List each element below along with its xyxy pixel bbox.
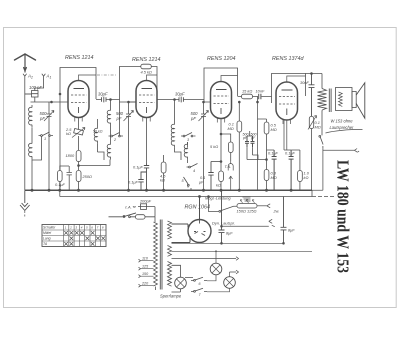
wire cap link (211, 161, 221, 163)
svg-text:0.1μF: 0.1μF (285, 151, 296, 156)
arrow tap b (236, 270, 239, 274)
wire stage3 links (175, 142, 192, 190)
junction (238, 101, 240, 103)
coil L2a grid coil (107, 108, 110, 126)
svg-text:250Ω: 250Ω (82, 174, 92, 179)
speaker driver (352, 92, 356, 108)
terminal (A) hook (133, 206, 136, 209)
tube V1 cathode (78, 107, 80, 113)
wire cathode chain (78, 162, 80, 171)
svg-text:Lang: Lang (43, 237, 51, 241)
resistor mains series (136, 215, 146, 219)
tube V1 anode (74, 88, 85, 90)
tube V3 anode (216, 89, 227, 91)
INTERSTAGE-2-3 (157, 97, 211, 190)
capacitor 30nF (309, 74, 315, 117)
wire to resistor 1800 (78, 136, 80, 150)
capacitor 0.1uF stage1 (67, 166, 72, 190)
junction dots on bus (31, 189, 33, 191)
wire Rk (60, 166, 69, 190)
transformer secondary heater (168, 262, 172, 287)
svg-text:4: 4 (193, 169, 195, 173)
X marks row TA (64, 242, 94, 246)
BUS-LINES (20, 189, 312, 217)
wire stage4 frame (272, 74, 306, 104)
speaker field resistor 150/125 (237, 204, 257, 208)
svg-text:Lautsprecher: Lautsprecher (330, 125, 355, 130)
wire anode feeds (79, 75, 306, 82)
pilot lamp 1 (175, 277, 187, 289)
MID-CLUSTER (208, 101, 302, 190)
resistor 15k coupling (242, 94, 253, 99)
switch S8 (319, 135, 321, 137)
WIRES-TOP (59, 67, 305, 137)
svg-text:MΩ: MΩ (271, 175, 277, 180)
resistor 0.1M (237, 121, 242, 132)
tube V4 anode (282, 89, 293, 91)
wire 500pF links (247, 131, 267, 160)
wire lamp2 links (207, 251, 236, 291)
svg-text:125: 125 (142, 265, 149, 269)
svg-text:MΩ: MΩ (271, 127, 277, 132)
table row lines (42, 230, 106, 241)
rectifier tube circle (188, 220, 211, 243)
tube V2 anode (142, 88, 153, 90)
wire A1 down (35, 79, 44, 88)
svg-text:30μF: 30μF (175, 92, 185, 97)
tube V2 cathode (146, 107, 148, 113)
wire grid link 0.5M (258, 118, 267, 120)
tube V4 envelope (276, 82, 298, 120)
wire anode top right (306, 73, 323, 75)
switch S2 (109, 133, 124, 137)
output transformer secondary (339, 92, 343, 106)
resistor R 250 (76, 171, 81, 182)
capacitor 0.1uF b (138, 172, 146, 190)
SWITCH-TABLE (42, 225, 106, 247)
svg-text:kΩ: kΩ (304, 175, 309, 180)
svg-text:6: 6 (199, 282, 201, 286)
capacitor 30uF coupling1 (102, 97, 107, 103)
resistor 4.5k stage2 (161, 162, 166, 173)
tube V1 grid (71, 95, 87, 103)
tube V1 envelope (68, 81, 89, 118)
svg-text:1: 1 (44, 137, 46, 141)
wire resistor to hook (257, 205, 267, 207)
output choke (318, 74, 327, 134)
wire to bus (78, 182, 80, 191)
svg-text:150Ω 125Ω: 150Ω 125Ω (237, 209, 257, 214)
wire lamp column links (172, 259, 217, 278)
RIGHT-LOWER-SECTION (208, 190, 334, 244)
junction grid1 (59, 93, 61, 95)
capacitor 30uF coupling2 (179, 97, 183, 103)
variable resistor 2.5k (74, 128, 84, 135)
svg-text:pF: pF (242, 136, 248, 140)
wire C1 down (48, 102, 50, 190)
wire grid stage2 (129, 101, 137, 103)
wire cap to transformer (154, 207, 156, 217)
terminal hook out1 (267, 204, 270, 208)
capacitor 500pF pair (245, 136, 249, 147)
wire antenna mast (24, 54, 27, 72)
rectifier anode marks (194, 220, 206, 236)
capacitor 0.1uF TA (208, 162, 213, 191)
pilot lamp 2 (210, 263, 222, 275)
svg-text:RENS 1214: RENS 1214 (132, 57, 160, 63)
wire node to grid line (25, 93, 32, 95)
terminal A1 (42, 74, 45, 79)
wire C2 col (120, 102, 137, 190)
svg-text:μF: μF (198, 180, 204, 185)
tube V2 grid (139, 95, 155, 103)
svg-text:150: 150 (142, 272, 149, 276)
wire dash boundary (312, 196, 334, 198)
svg-text:10nF: 10nF (256, 89, 265, 94)
svg-text:100 pF: 100 pF (29, 85, 42, 90)
wire second bus drop to switch (209, 197, 219, 212)
OUTPUT-SPEAKER-SECTION (306, 73, 365, 191)
terminal A2 (23, 74, 26, 79)
X marks row Mittel (64, 231, 94, 235)
wire cathode tap row (79, 160, 111, 166)
wire bus drop right (311, 190, 313, 196)
svg-text:pF: pF (250, 136, 256, 140)
svg-text:1800: 1800 (66, 153, 75, 158)
svg-text:MΩ: MΩ (228, 126, 234, 131)
variable capacitor C3 500pF (201, 110, 206, 123)
svg-text:RENS 1374d: RENS 1374d (272, 56, 304, 62)
wire anode row 1-2 (96, 99, 120, 101)
svg-text:Mittel: Mittel (43, 231, 51, 235)
variable resistor 0.1M tone (309, 117, 313, 129)
switch S-anode (219, 210, 221, 212)
svg-text:15 kΩ: 15 kΩ (242, 89, 252, 94)
LAMPS (172, 243, 313, 292)
capacitor 8uF left (219, 190, 225, 243)
wire stage3 frame (204, 68, 238, 102)
junction (311, 73, 313, 75)
svg-text:kΩ: kΩ (216, 183, 221, 188)
svg-text:8μF: 8μF (226, 231, 233, 236)
svg-text:kΩ: kΩ (66, 131, 71, 136)
wire lamp1 links (172, 265, 181, 292)
transformer primary winding (154, 222, 158, 286)
capacitor 0.1uF d2 (289, 150, 294, 190)
transformer secondary HT (168, 221, 172, 239)
capacitor 200pF boxed (141, 204, 147, 210)
wire 5k links (221, 134, 231, 161)
resistor 5k TA column (219, 171, 224, 182)
svg-text:2: 2 (69, 226, 72, 230)
variable capacitor C1 500pF (47, 110, 52, 123)
PSU-SECTION (109, 204, 172, 290)
wire tone column down (311, 129, 313, 191)
wire 0.1M column (238, 102, 240, 121)
wire mid column 257.5 (257, 102, 259, 190)
svg-text:Dyn. Lautspr.: Dyn. Lautspr. (212, 220, 235, 225)
coil L3b (184, 142, 187, 160)
TUBE-LABELS (65, 55, 304, 63)
wire stage2 frame right (151, 67, 157, 100)
wire tube3 cathode column (220, 119, 222, 172)
svg-text:220: 220 (141, 282, 149, 286)
svg-text:RENS 1204: RENS 1204 (207, 56, 235, 62)
svg-text:110: 110 (142, 257, 149, 261)
tube V4 cathode (286, 109, 288, 116)
tap arrows on resistor (241, 200, 255, 204)
pilot lamp 3 (224, 277, 236, 289)
svg-text:W 153 ohne: W 153 ohne (331, 119, 354, 124)
svg-text:5 kΩ: 5 kΩ (210, 144, 218, 149)
svg-text:c.A.: c.A. (125, 205, 132, 210)
svg-text:0.1μF: 0.1μF (133, 165, 144, 170)
tube V2 envelope (136, 81, 157, 118)
wire main ground bus (25, 189, 312, 191)
wire shield dash (97, 74, 116, 76)
wire 0.5M links (266, 119, 268, 160)
wire grid row stage1 (31, 101, 69, 103)
rectifier RGN1064 (172, 196, 212, 243)
wire second bus left tick (59, 190, 61, 196)
wire second bus (60, 196, 312, 198)
tube V3 cathode (220, 108, 222, 114)
switch S4 (187, 164, 198, 168)
svg-text:pF: pF (116, 116, 122, 121)
svg-text:Sperrlampe: Sperrlampe (160, 294, 182, 299)
underline squiggle (326, 129, 363, 133)
output transformer core (329, 89, 331, 113)
switch S7 (191, 288, 207, 291)
svg-text:4.5 kΩ: 4.5 kΩ (141, 70, 152, 75)
coil L2c (107, 142, 110, 160)
coil L2b (94, 126, 97, 144)
tube V4 grid (279, 97, 295, 105)
svg-text:8μF: 8μF (288, 228, 295, 233)
tube V3 envelope (211, 82, 232, 119)
svg-text:T.A.: T.A. (225, 164, 232, 169)
variable capacitor C2 500pF (126, 110, 131, 123)
svg-text:RGN 1064: RGN 1064 (185, 205, 210, 211)
resistor 4.5k top (above tube2) (141, 64, 152, 69)
wire stage2 links (98, 119, 111, 160)
wire switch S1 drop (32, 137, 42, 191)
svg-text:Schalter: Schalter (43, 226, 56, 230)
svg-text:0.1μF: 0.1μF (55, 182, 66, 187)
transformer secondary mid (168, 246, 172, 257)
X marks row Lang (70, 237, 105, 241)
ground symbol (20, 190, 30, 210)
switch S3 (181, 133, 196, 137)
wire coil hang (110, 100, 112, 109)
svg-text:0.1μF: 0.1μF (128, 180, 139, 185)
wire tube1 cathode down (78, 118, 80, 130)
svg-text:30μF: 30μF (98, 92, 108, 97)
svg-text:MΩ: MΩ (315, 125, 321, 130)
coil L3a (171, 122, 174, 148)
resistor Rk vertical (58, 171, 63, 182)
switch S1 (39, 132, 54, 136)
tube V3 grid (214, 96, 230, 104)
svg-text:200pF: 200pF (139, 199, 152, 204)
svg-text:kΩ: kΩ (160, 178, 165, 183)
wire anode row 2-3 (157, 99, 204, 101)
svg-text:0.1μF: 0.1μF (268, 151, 279, 156)
TUBES (68, 81, 298, 121)
junction (51, 101, 53, 103)
wire stage1 frame (60, 68, 96, 100)
wire 10k links (291, 150, 300, 190)
antenna (15, 54, 36, 60)
resistor 0.5M (264, 122, 269, 134)
tube heater pins (75, 117, 291, 124)
wire resistor col (163, 155, 165, 190)
wire heater rows (172, 243, 313, 251)
phono TA fork (228, 161, 233, 190)
capacitor 10nF coupling (259, 94, 261, 99)
resistor 5k mid (228, 142, 233, 153)
wire L3a hang (174, 100, 176, 123)
wire anode row 3-4 (238, 96, 272, 98)
hatch marks (243, 197, 251, 201)
switch S5 (184, 177, 189, 188)
transformer core (160, 220, 162, 290)
wire rectifier top (199, 197, 201, 220)
svg-text:pF: pF (190, 116, 196, 121)
svg-text:pF: pF (39, 116, 45, 121)
terminal hook gramo (355, 149, 360, 153)
table frame (42, 225, 106, 247)
capacitor 100pF boxed (32, 91, 39, 98)
switch S-mains (109, 213, 137, 217)
arrow tap a (236, 257, 239, 261)
svg-text:2w.: 2w. (273, 209, 280, 214)
mains taps (140, 261, 154, 286)
capacitor 0.1uF a (144, 164, 149, 191)
wire dyn lautspr row (222, 225, 269, 227)
coil L1b (29, 141, 32, 159)
svg-text:30nF: 30nF (300, 80, 309, 85)
wire stage2 frame (120, 67, 142, 137)
wire gramo tap row (312, 148, 355, 190)
wire C3 col (204, 102, 211, 190)
STAGE1-CATHODE (58, 118, 111, 191)
svg-text:LW 180 und W 153: LW 180 und W 153 (334, 160, 353, 273)
INTERSTAGE-1-2 (94, 97, 136, 190)
wire heater row to rectifier (172, 224, 191, 243)
resistor 0.3M (264, 170, 269, 181)
table column lines (64, 225, 101, 247)
wire tube2 down (146, 118, 148, 164)
capacitor 8uF right (281, 197, 287, 244)
INPUT-SECTION (25, 79, 68, 190)
capacitor 0.1uF d1 (272, 150, 277, 190)
speaker cone (356, 83, 365, 118)
resistor R 1800 (76, 151, 81, 162)
coil L1a (29, 105, 33, 128)
STAGE2-CATHODE (138, 118, 166, 191)
wire A2 down (24, 79, 26, 190)
wire L1 junction (31, 128, 33, 141)
svg-text:50 kΩ: 50 kΩ (93, 130, 103, 134)
switch S6 (191, 277, 207, 280)
terminal hook out2 (269, 219, 275, 226)
wire divider hang (257, 97, 259, 103)
svg-text:RENS 1214: RENS 1214 (65, 55, 93, 61)
wire stage1 left drop (59, 94, 61, 190)
output transformer frame (336, 88, 353, 111)
wire tube4 cathode (286, 120, 288, 150)
resistor 10k right (298, 171, 303, 182)
